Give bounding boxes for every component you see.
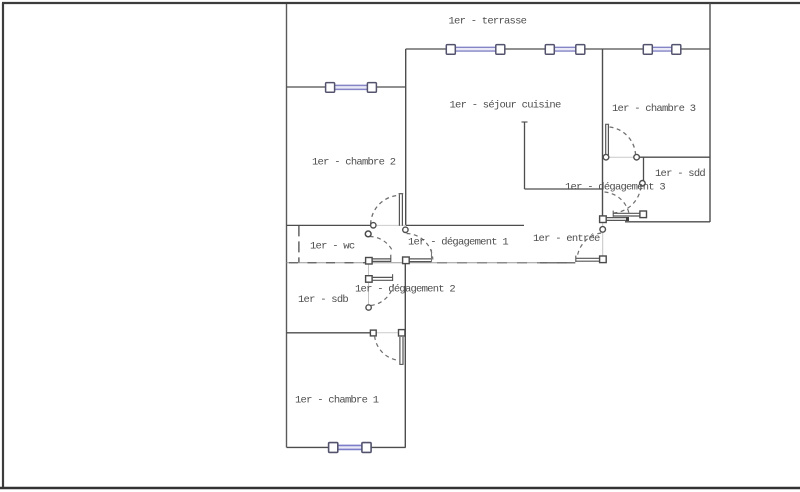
door chambre1: panel [399,337,403,364]
door chambre3: circle right [634,154,640,160]
door deg2: hinge circle [366,305,371,310]
door deg2: swing arc [371,285,394,306]
door chambre1: swing arc [375,336,399,360]
wall: lower corridor wall y=262.6 (gray base) [287,262,576,264]
door chambre2: swing arc [371,195,400,224]
door sdd: panel [613,211,640,217]
door wc: top circle [365,231,371,237]
window W2 on top wall [545,45,585,55]
frame left border [2,3,4,488]
door sdd: top circle [640,181,646,187]
door wc: cap square [366,258,373,265]
door deg1: swing arc [407,234,433,260]
wall: lower corridor dark dashes right [437,262,575,264]
wall: sdb bottom wall y=332.8 [287,332,374,334]
wall: sdb/wc inner light verticals x=368.5 [368,264,370,276]
wall: sdd bottom wall y=221.8 [625,221,710,223]
wall: sejour left wall x=405.7 [405,49,407,226]
wall: chambre3/sdd boundary y=157 [637,156,711,158]
door entree: swing arc [578,233,602,256]
svg-text:1er - chambre 2: 1er - chambre 2 [312,157,396,169]
window W1 on top wall [446,45,505,55]
door chambre1: hinge square [399,330,405,336]
door deg3: swing arc [605,192,630,217]
wall: right outer wall x=710 [709,3,711,222]
wall: left outer wall x=286.5 [286,4,288,447]
door wc: swing arc [370,237,393,251]
wall: entree inner edge x=602.7 (light) [602,222,604,256]
wall: chambre2 top wall y=87 [287,86,332,88]
wall: kitchen divider horizontal y=188.4 [525,188,603,190]
door wc: panel [372,255,391,262]
window chambre2 top [326,83,377,93]
door chambre3: hinge circle left [603,154,609,160]
wall: corridor solid segment near entree y=262.8 [540,262,575,264]
door deg2: cap square [366,276,373,283]
door sdd: swing arc [614,187,641,214]
door entree: top circle [600,227,606,233]
svg-text:1er - entrée: 1er - entrée [533,233,600,245]
door deg2: panel [372,274,393,281]
svg-text:1er - chambre 1: 1er - chambre 1 [295,395,379,407]
svg-text:1er - wc: 1er - wc [310,241,355,253]
door deg3: hinge cap square [600,216,607,223]
frame top border [2,2,800,4]
window chambre1 bottom [329,443,372,453]
door deg3: panel [606,217,629,221]
svg-text:1er - chambre 3: 1er - chambre 3 [612,103,696,115]
svg-text:1er - sdb: 1er - sdb [298,294,348,306]
wall: terrasse/sejour top wall y=49 [406,48,447,50]
window W3 on top wall [643,45,681,55]
svg-text:1er - dégagement 1: 1er - dégagement 1 [408,237,508,249]
svg-text:1er - séjour cuisine: 1er - séjour cuisine [450,100,561,112]
door chambre1: left square [370,330,376,336]
wall: wc shaft right x=298.9 [298,225,300,262]
wall: deg2/chambre1 right wall x=405.3 [404,263,406,448]
door chambre2: hinge circle [371,223,376,228]
wall: chambre3 left wall x=602.5 [602,49,604,216]
door chambre3: panel [605,124,609,155]
svg-text:1er - dégagement 2: 1er - dégagement 2 [355,284,455,296]
door sdd: hinge cap square [640,211,647,218]
svg-text:1er - dégagement 3: 1er - dégagement 3 [565,182,665,194]
wall: kitchen divider vertical x=523.5 [524,122,526,189]
svg-text:1er - sdd: 1er - sdd [655,168,705,180]
door deg1: top circle [403,227,408,232]
svg-text:1er - terrasse: 1er - terrasse [449,16,527,28]
door entree: panel [576,256,600,262]
door chambre3: swing arc [610,127,636,154]
wall: sdd left wall x=643.5 [643,157,645,183]
wall: lower corridor dark dashes left [289,262,365,264]
door chambre2: panel [399,194,404,226]
wall: chambre1 bottom wall y=447.4 [287,446,330,448]
frame bottom border [0,487,800,490]
door deg1: panel [409,250,432,263]
door deg1: hinge cap square [403,257,410,264]
door entree: hinge cap square [600,256,607,263]
wall: middle wall y=225.4 [287,224,373,226]
wall: chambre3 bottom y=157 opening (light) [603,156,636,158]
